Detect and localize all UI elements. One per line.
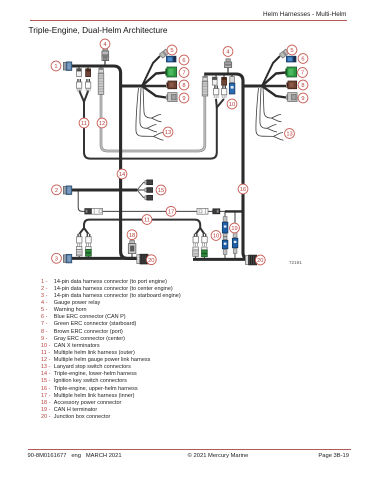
svg-text:15: 15 xyxy=(158,188,164,194)
svg-text:5: 5 xyxy=(290,48,293,54)
svg-text:11: 11 xyxy=(144,218,150,224)
svg-text:17: 17 xyxy=(168,210,174,216)
svg-text:10: 10 xyxy=(229,102,235,108)
svg-text:2: 2 xyxy=(55,188,58,194)
svg-text:5: 5 xyxy=(170,48,173,54)
svg-text:4: 4 xyxy=(103,42,106,48)
svg-text:8: 8 xyxy=(182,83,185,89)
svg-text:18: 18 xyxy=(129,233,135,239)
svg-text:13: 13 xyxy=(286,132,292,138)
svg-text:3: 3 xyxy=(55,257,58,263)
svg-text:12: 12 xyxy=(99,121,105,127)
svg-text:7: 7 xyxy=(182,71,185,77)
svg-text:6: 6 xyxy=(301,57,304,63)
svg-text:10: 10 xyxy=(213,234,219,240)
svg-text:9: 9 xyxy=(182,96,185,102)
svg-text:11: 11 xyxy=(81,121,87,127)
svg-text:20: 20 xyxy=(257,258,263,264)
svg-text:14: 14 xyxy=(119,172,125,178)
svg-text:1: 1 xyxy=(54,64,57,70)
svg-text:20: 20 xyxy=(148,258,154,264)
svg-text:19: 19 xyxy=(231,226,237,232)
svg-text:6: 6 xyxy=(182,58,185,64)
svg-text:13: 13 xyxy=(165,130,171,136)
svg-text:7: 7 xyxy=(301,71,304,77)
svg-text:8: 8 xyxy=(301,83,304,89)
svg-text:16: 16 xyxy=(240,187,246,193)
svg-text:4: 4 xyxy=(226,50,229,56)
svg-text:9: 9 xyxy=(301,96,304,102)
